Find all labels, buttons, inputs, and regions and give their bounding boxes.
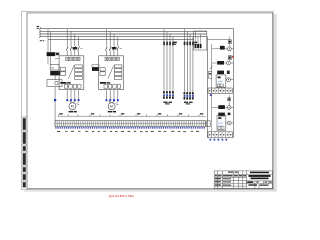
U1 top terminals [66,57,80,60]
contact KM4 [218,105,225,109]
feeder QF1 wires [48,29,51,65]
starter unit U2 [99,29,124,90]
node blue terminal feeder [54,99,56,101]
drop wires group2 [106,29,117,56]
rung 2 wire [212,60,234,63]
relay KK2 black box (left of U2) [92,65,99,67]
rung 3 wire [226,79,234,81]
breaker marks QF2 [66,46,79,50]
control supply wire to fuse [207,39,229,41]
contact KM5 [218,113,225,117]
box SF below feeder [47,80,62,87]
left margin stamp column [22,117,27,187]
label XP2 [184,102,193,105]
blue node under XT1 [210,94,212,96]
bus L1 [40,28,234,30]
fuse FU5 rung1 [228,40,231,44]
blue terminals M1 [66,99,79,101]
fused feeder group FU4 [184,29,198,105]
U1 bottom terminals [64,85,81,89]
XT3 lower blue terminals [55,127,205,129]
XT3 top stubs [59,114,200,116]
drawing frame [27,13,273,189]
fuse FU3 [163,42,174,46]
motor M2 wires [106,90,117,103]
U1 label [60,82,70,84]
terminal row XT1 [208,88,232,93]
svg-text:Для Ш URS-1 РКЦ: Для Ш URS-1 РКЦ [109,194,135,198]
bus start ticks and labels [39,27,40,38]
relay block A2 [217,115,226,130]
U2 coil boxes [100,68,105,72]
rung 5 wire [226,122,234,124]
wire QF to U1 [55,58,60,67]
paper sheet shadow [274,14,277,191]
XT3 labels below [57,131,199,132]
lamp HL5 [227,121,231,125]
terminal strip XT3 top wire [58,115,206,117]
drop wires group1 [67,29,78,56]
U2 bottom terminals [104,85,121,89]
switch SA1 on outer rail [209,71,212,78]
U2 label [100,82,110,84]
terminal row XT2 [208,132,232,138]
rung 4 wire [212,106,234,108]
label M2 [108,111,116,113]
wires group3 [164,29,173,91]
starter unit U1 [59,29,84,90]
label M1 [69,111,77,113]
contact KM1 [220,46,225,50]
XT3 dividers [55,121,206,127]
U1 contact column [75,65,83,79]
red pencil mark [232,56,234,58]
connector XP2 [184,92,194,99]
rung 1 wire [212,48,234,50]
switch mark on left rail [210,66,213,70]
U1 coil boxes [60,68,65,72]
fuse FU7 rung4 [228,98,231,101]
wires group4 [185,29,193,92]
inner control rail [211,44,213,135]
blue terminals M2 [105,99,118,101]
svg-text:M: M [71,105,74,109]
U2 top terminals [105,57,119,60]
title block texts [247,172,270,186]
XT3 end box [207,121,211,127]
wire feeder to strip [54,75,56,120]
bus L2 [40,30,207,32]
surge arresters FV [196,31,201,43]
lamp HL3 [227,78,231,82]
U2 contact column [114,65,122,79]
blue nodes under XT2 [210,139,228,141]
fuse tick rung5 [228,113,231,116]
circuit breaker QF1 [47,52,56,56]
relay KK0 black box [50,71,60,76]
bus PE [48,39,194,41]
breaker marks QF3 [106,46,119,50]
control ladder left rail [206,37,208,138]
terminal strip XT3 body [55,121,206,127]
contact KM2 [217,61,224,65]
fuse tick rung3 [227,71,230,74]
lamp HL2 [227,61,231,65]
motor M1 wires [67,90,78,103]
bus N [40,36,207,38]
label XP1 [163,102,172,105]
module U2 outline [99,56,124,90]
svg-text:KM: KM [51,68,54,70]
lamp HL1 [227,47,231,51]
surge unit FV box [194,31,207,50]
fuse FU6 rung2 [228,56,231,60]
contact KM3 [217,71,224,75]
contactor KM0 box [50,64,59,70]
fuse FU4 [184,42,194,46]
motor M1 [69,103,76,110]
relay block A1 [216,75,226,87]
fused feeder group FU3 [163,29,177,105]
bus L3 [40,33,207,35]
svg-text:M: M [110,105,113,109]
lamp HL4 [227,106,231,110]
title block [214,171,272,189]
control ladder right rail [233,29,235,138]
paper sheet edge [22,12,274,190]
module U1 outline [59,56,84,90]
motor M2 [108,103,115,110]
connector XP1 [163,91,174,99]
